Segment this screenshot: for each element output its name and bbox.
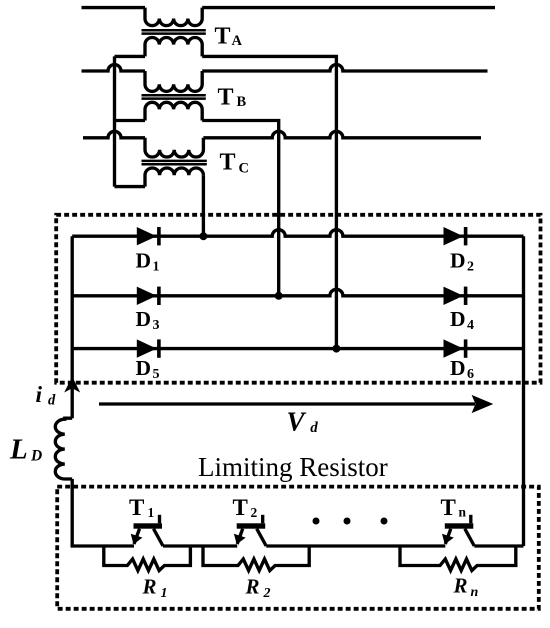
svg-text:D: D	[450, 307, 466, 331]
transformer TB primary winding	[145, 71, 202, 91]
svg-text:D: D	[136, 248, 152, 272]
svg-text:D: D	[136, 307, 152, 331]
svg-text:n: n	[459, 505, 467, 520]
transformer TA secondary winding	[145, 38, 202, 57]
current arrow i_d on left bus	[64, 377, 80, 393]
node TB-rail2 junction dot	[275, 292, 283, 300]
transistor Tn	[442, 515, 474, 546]
svg-text:2: 2	[467, 260, 474, 275]
diode D3	[137, 287, 161, 305]
svg-text:2: 2	[251, 505, 258, 520]
wire rail 2 with hop over TA drop	[72, 289, 523, 296]
diode D6	[444, 339, 468, 357]
svg-text:T: T	[218, 85, 234, 111]
wire phase-A left segment	[82, 6, 146, 9]
wire phase-A right segment	[202, 6, 495, 9]
svg-text:R: R	[453, 574, 468, 598]
diode D1	[137, 227, 161, 245]
wire TB secondary left to interconnect	[115, 119, 146, 122]
inductor LD coil	[55, 418, 72, 479]
wire phase-B right segment with hop over TA drop	[202, 65, 487, 71]
svg-text:L: L	[9, 434, 28, 466]
ellipsis dot 2	[344, 518, 351, 525]
svg-text:C: C	[239, 160, 249, 176]
transformer TA core bars	[142, 29, 206, 32]
rectifier dashed enclosure box	[56, 215, 540, 383]
svg-text:D: D	[450, 248, 466, 272]
svg-text:n: n	[471, 585, 479, 600]
svg-text:A: A	[232, 33, 243, 49]
svg-text:T: T	[129, 495, 144, 520]
svg-text:T: T	[233, 495, 248, 520]
svg-text:1: 1	[161, 586, 168, 601]
svg-text:T: T	[215, 24, 231, 50]
node TC-rail1 junction dot	[199, 232, 207, 240]
svg-text:2: 2	[263, 586, 271, 601]
wire phase-B left segment with hop over node wire	[82, 65, 146, 71]
wire right DC bus (rail1 corner down to resistor bank wire)	[522, 236, 525, 546]
svg-text:5: 5	[153, 367, 160, 382]
svg-text:D: D	[136, 356, 152, 380]
wire TC secondary left to interconnect	[115, 185, 146, 188]
svg-text:D: D	[450, 356, 466, 380]
wire bank bus segment T2 to Tn	[266, 544, 445, 547]
svg-text:V: V	[287, 407, 307, 437]
wire rail 3	[72, 347, 523, 350]
voltage arrow Vd shaft	[99, 402, 475, 405]
resistor R1 bypass branch with zigzag	[104, 546, 191, 571]
svg-text:d: d	[310, 420, 318, 436]
svg-text:1: 1	[153, 260, 160, 275]
svg-text:d: d	[48, 393, 56, 409]
diode D5	[137, 339, 161, 357]
wire bank bus segment left of T1	[72, 544, 134, 546]
node TA-rail3 junction dot	[332, 345, 340, 353]
ellipsis dot 1	[313, 518, 320, 525]
transformer TB secondary winding	[145, 102, 202, 120]
resistor bank dashed enclosure box	[57, 487, 539, 609]
svg-text:T: T	[220, 150, 236, 176]
transformer TC secondary winding	[145, 168, 203, 187]
svg-text:Limiting Resistor: Limiting Resistor	[198, 452, 388, 482]
transformer TB core bars	[142, 94, 206, 97]
diode D4	[444, 287, 468, 305]
wire secondary interconnect vertical	[113, 56, 116, 186]
diode D2	[444, 227, 468, 245]
svg-text:D: D	[30, 448, 42, 465]
resistor Rn bypass branch with zigzag	[400, 546, 516, 571]
svg-text:4: 4	[467, 318, 474, 333]
transformer TA primary winding	[145, 8, 202, 26]
wire TC secondary right drop to rail 1	[202, 175, 205, 236]
wire TA secondary right drop to rail 3	[202, 56, 336, 348]
wire left DC bus upper (rail1 corner down to coil)	[71, 236, 74, 418]
wire rail 1 with hops over TB and TA drops	[72, 230, 523, 236]
resistor R2 bypass branch with zigzag	[203, 546, 309, 571]
voltage arrow Vd head	[472, 395, 494, 413]
wire phase-C right segment with hops over TB and TA drops	[203, 131, 481, 138]
wire bank bus segment Tn to right bus	[474, 544, 523, 547]
transformer TC core bars	[142, 160, 207, 163]
wire TA secondary left to interconnect	[115, 55, 146, 58]
wire TB secondary right drop to rail 2	[202, 121, 279, 296]
svg-text:R: R	[245, 574, 260, 598]
svg-text:6: 6	[467, 367, 474, 382]
transistor T1	[131, 515, 163, 546]
svg-text:R: R	[142, 574, 157, 598]
ellipsis dot 3	[381, 518, 388, 525]
svg-text:1: 1	[148, 505, 155, 520]
transformer TC primary winding	[145, 138, 203, 157]
svg-text:T: T	[441, 495, 456, 520]
wire phase-C left segment with hop over node wire	[83, 131, 145, 138]
transistor T2	[234, 515, 266, 546]
wire left DC bus lower (coil to resistor bank wire)	[71, 479, 74, 546]
wire bank bus segment T1 to T2	[163, 544, 237, 547]
svg-text:i: i	[36, 382, 43, 408]
svg-text:B: B	[237, 94, 247, 110]
svg-text:3: 3	[153, 318, 160, 333]
